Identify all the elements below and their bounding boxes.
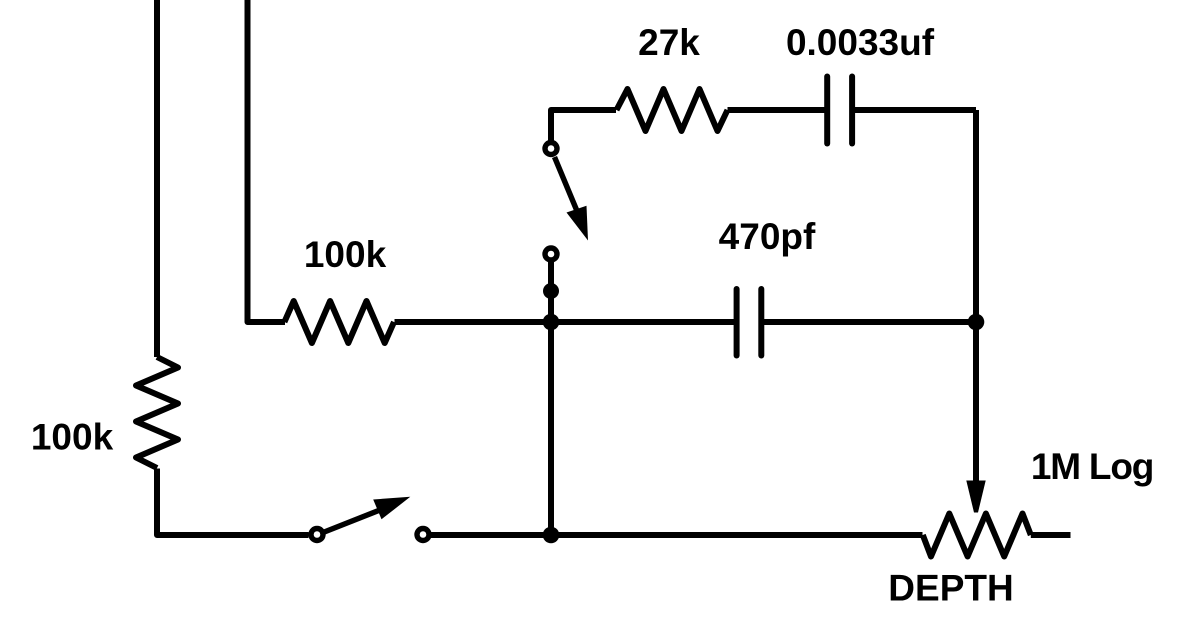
wire bottom rail from switch to potentiometer: [431, 532, 923, 538]
switch SW1 common terminal circle: [545, 143, 557, 155]
svg-text:470pf: 470pf: [719, 216, 816, 257]
capacitor C1 0.0033uf right plate: [849, 77, 855, 144]
wire second vertical from top with corner to mid rail: [248, 0, 286, 322]
wire right vertical from top rail to mid rail: [973, 110, 979, 322]
capacitor C1 0.0033uf left plate: [824, 77, 830, 144]
potentiometer VR1 1M body: [923, 514, 1031, 557]
wire mid rail from resistor to 470pf left plate: [395, 319, 735, 325]
potentiometer wiper arrowhead: [966, 481, 985, 513]
wire top rail from 27k to 0.0033uf left plate: [728, 107, 825, 113]
wire left vertical bottom to corner: [157, 469, 309, 536]
switch SW1 arrowhead: [567, 206, 589, 241]
capacitor C2 470pf right plate: [758, 289, 764, 356]
junction dot mid rail / mid vertical: [543, 314, 560, 331]
switch SW1 arm: [555, 157, 578, 211]
svg-text:100k: 100k: [31, 417, 114, 458]
junction dot mid rail / right vertical: [968, 314, 985, 331]
switch SW1 throw terminal circle: [545, 248, 557, 260]
resistor R1 27k: [617, 89, 728, 131]
switch SW2 right terminal circle: [417, 529, 429, 541]
switch SW2 arm: [323, 510, 380, 533]
svg-text:DEPTH: DEPTH: [888, 568, 1013, 609]
wire mid vertical from mid rail to bottom rail: [548, 322, 554, 535]
wire mid rail from 470pf to right vertical: [764, 319, 976, 325]
node dot on switch throw stub: [543, 283, 559, 299]
resistor R-shunt 100k vertical: [136, 357, 178, 468]
junction dot bottom rail / mid vertical: [543, 527, 560, 544]
wire left vertical from top: [154, 0, 160, 357]
svg-text:0.0033uf: 0.0033uf: [786, 22, 935, 63]
switch SW2 arrowhead: [373, 497, 410, 520]
svg-text:100k: 100k: [304, 234, 387, 275]
svg-text:1M Log: 1M Log: [1031, 446, 1153, 487]
wire switch throw stub to mid rail: [548, 261, 554, 322]
capacitor C2 470pf left plate: [734, 289, 740, 356]
resistor R-series 100k horizontal: [284, 301, 394, 343]
wire right vertical from mid rail down to wiper arrow: [973, 322, 979, 484]
switch SW2 left terminal circle: [311, 529, 323, 541]
wire potentiometer right stub: [1031, 532, 1071, 538]
wire top rail corner down to switch common stub: [551, 110, 616, 141]
svg-text:27k: 27k: [638, 22, 700, 63]
wire top rail from 0.0033uf to right corner: [855, 107, 976, 113]
